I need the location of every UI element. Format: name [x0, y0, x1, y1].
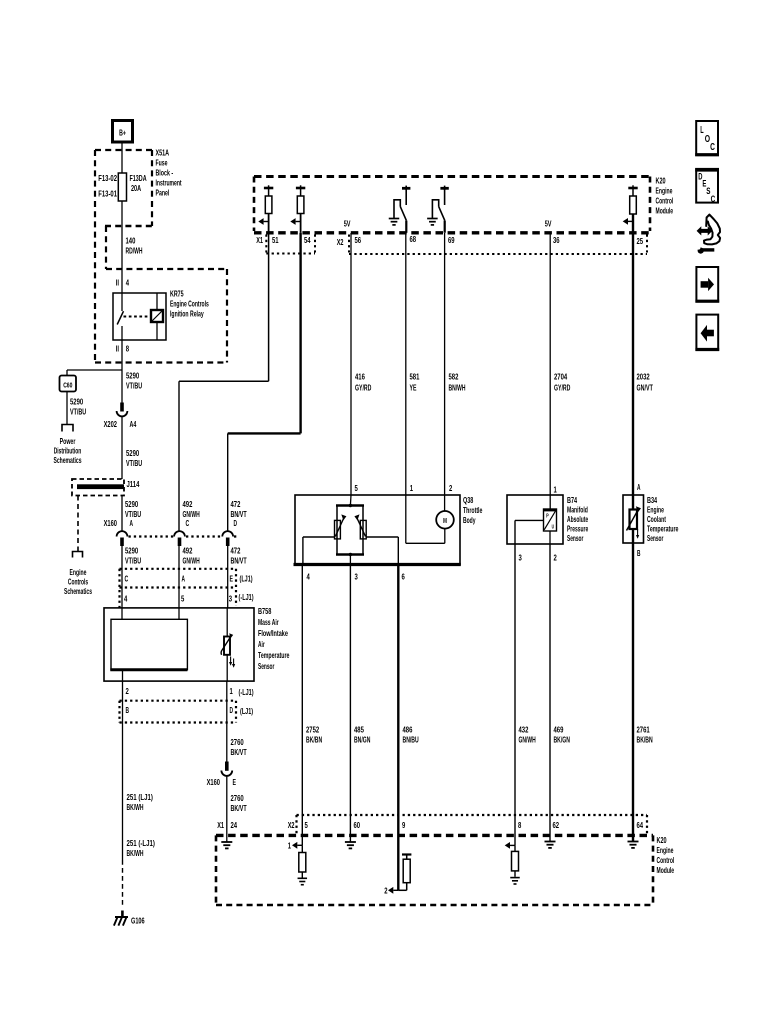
svg-text:BK/WH: BK/WH	[127, 802, 144, 812]
svg-text:5290: 5290	[126, 371, 139, 381]
svg-text:F13DA: F13DA	[130, 173, 147, 183]
svg-text:54: 54	[304, 235, 311, 245]
svg-text:5290: 5290	[125, 546, 138, 556]
svg-text:B: B	[126, 705, 130, 715]
svg-text:YE: YE	[410, 383, 417, 393]
svg-text:5V: 5V	[344, 219, 351, 229]
svg-text:(LJ1): (LJ1)	[240, 574, 253, 584]
svg-text:(-LJ1): (-LJ1)	[239, 592, 254, 602]
svg-text:C: C	[186, 518, 190, 528]
svg-text:Manifold: Manifold	[567, 505, 588, 515]
svg-text:E: E	[230, 574, 234, 584]
svg-text:251 (-LJ1): 251 (-LJ1)	[127, 838, 156, 848]
svg-text:BK/BN: BK/BN	[306, 735, 322, 745]
svg-text:VT/BU: VT/BU	[126, 458, 142, 468]
svg-text:Ignition Relay: Ignition Relay	[170, 309, 204, 319]
svg-text:36: 36	[553, 235, 560, 245]
svg-text:Body: Body	[463, 515, 476, 525]
svg-text:A: A	[637, 482, 641, 492]
svg-text:56: 56	[355, 235, 362, 245]
svg-text:A4: A4	[130, 419, 137, 429]
svg-text:Temperature: Temperature	[647, 524, 679, 534]
svg-text:5: 5	[181, 594, 184, 604]
svg-text:60: 60	[354, 820, 361, 830]
svg-text:M: M	[443, 516, 447, 525]
svg-text:X1: X1	[256, 235, 263, 245]
svg-text:5V: 5V	[545, 219, 552, 229]
svg-text:5290: 5290	[125, 499, 138, 509]
svg-text:64: 64	[637, 820, 644, 830]
svg-text:Controls: Controls	[68, 577, 88, 587]
svg-text:582: 582	[449, 372, 459, 382]
svg-text:472: 472	[231, 546, 241, 556]
svg-text:G106: G106	[131, 916, 145, 926]
svg-text:1: 1	[230, 686, 233, 696]
svg-text:2752: 2752	[306, 725, 319, 735]
svg-text:GN/WH: GN/WH	[519, 735, 536, 745]
svg-text:69: 69	[448, 235, 455, 245]
svg-text:Panel: Panel	[156, 188, 170, 198]
svg-text:Engine: Engine	[647, 505, 664, 515]
svg-text:Engine: Engine	[70, 567, 87, 577]
svg-text:Sensor: Sensor	[567, 533, 584, 543]
svg-text:BN/VT: BN/VT	[231, 556, 248, 566]
svg-text:3: 3	[519, 553, 522, 563]
svg-text:GY/RD: GY/RD	[355, 383, 371, 393]
svg-text:4: 4	[124, 594, 127, 604]
svg-text:Power: Power	[60, 436, 76, 446]
svg-text:Engine: Engine	[657, 845, 674, 855]
svg-text:2032: 2032	[637, 372, 650, 382]
svg-text:20A: 20A	[131, 183, 141, 193]
svg-text:Block -: Block -	[156, 168, 174, 178]
svg-text:X2: X2	[337, 237, 344, 247]
svg-text:X160: X160	[207, 777, 221, 787]
svg-text:Control: Control	[656, 196, 674, 206]
svg-text:486: 486	[403, 725, 413, 735]
svg-text:Pressure: Pressure	[567, 524, 588, 534]
svg-text:BN/WH: BN/WH	[449, 383, 466, 393]
svg-text:II: II	[116, 278, 119, 288]
svg-text:469: 469	[554, 725, 564, 735]
svg-text:2: 2	[384, 886, 387, 896]
svg-text:251 (LJ1): 251 (LJ1)	[127, 792, 154, 802]
svg-text:5290: 5290	[126, 448, 139, 458]
svg-text:GY/RD: GY/RD	[554, 383, 570, 393]
svg-text:VT/BU: VT/BU	[70, 407, 86, 417]
svg-text:BK/GN: BK/GN	[554, 735, 570, 745]
svg-text:1: 1	[410, 483, 413, 493]
svg-text:2: 2	[554, 553, 557, 563]
svg-text:F13-01: F13-01	[98, 189, 117, 199]
svg-text:RD/WH: RD/WH	[126, 246, 143, 256]
svg-text:X160: X160	[104, 518, 118, 528]
svg-text:Q38: Q38	[463, 495, 473, 505]
svg-text:X51A: X51A	[156, 148, 170, 158]
svg-text:492: 492	[183, 546, 193, 556]
svg-text:Temperature: Temperature	[258, 650, 290, 660]
svg-text:24: 24	[231, 820, 238, 830]
svg-text:51: 51	[272, 235, 279, 245]
svg-text:L: L	[700, 125, 703, 136]
svg-text:BN/GN: BN/GN	[354, 735, 370, 745]
svg-text:B+: B+	[119, 128, 126, 138]
svg-text:6: 6	[402, 572, 405, 582]
svg-text:C: C	[710, 142, 715, 153]
svg-text:485: 485	[354, 725, 364, 735]
svg-text:Sensor: Sensor	[647, 533, 664, 543]
svg-text:E: E	[233, 777, 237, 787]
svg-text:140: 140	[126, 236, 136, 246]
svg-text:BK/BN: BK/BN	[637, 735, 653, 745]
svg-text:D: D	[230, 705, 234, 715]
svg-text:VT/BU: VT/BU	[125, 556, 141, 566]
svg-text:B: B	[637, 548, 641, 558]
svg-text:416: 416	[355, 372, 365, 382]
svg-text:68: 68	[410, 234, 417, 244]
svg-text:B758: B758	[258, 606, 272, 616]
svg-text:C: C	[711, 194, 716, 205]
svg-text:B34: B34	[647, 495, 657, 505]
svg-text:581: 581	[410, 372, 420, 382]
svg-text:3: 3	[355, 572, 358, 582]
svg-text:62: 62	[553, 820, 560, 830]
svg-text:Throttle: Throttle	[463, 505, 483, 515]
svg-text:5290: 5290	[70, 397, 83, 407]
svg-text:Control: Control	[657, 855, 675, 865]
svg-text:4: 4	[126, 278, 129, 288]
svg-text:Instrument: Instrument	[156, 178, 182, 188]
svg-text:1: 1	[554, 485, 557, 495]
svg-text:J114: J114	[127, 479, 140, 489]
svg-text:U: U	[552, 525, 554, 531]
svg-text:(-LJ1): (-LJ1)	[239, 687, 254, 697]
svg-text:2: 2	[449, 483, 452, 493]
svg-text:Absolute: Absolute	[567, 514, 588, 524]
svg-text:432: 432	[519, 725, 529, 735]
svg-text:K20: K20	[657, 835, 667, 845]
svg-text:1: 1	[288, 841, 291, 851]
svg-text:F13-02: F13-02	[98, 173, 117, 183]
svg-text:GN/VT: GN/VT	[637, 383, 654, 393]
svg-text:P: P	[546, 514, 548, 520]
svg-text:D: D	[234, 518, 238, 528]
svg-text:Coolant: Coolant	[647, 514, 666, 524]
svg-text:Schematics: Schematics	[53, 455, 81, 465]
svg-text:BK/VT: BK/VT	[231, 747, 248, 757]
svg-text:C60: C60	[63, 381, 72, 390]
svg-text:X1: X1	[217, 820, 224, 830]
svg-text:Sensor: Sensor	[258, 661, 275, 671]
svg-text:492: 492	[183, 499, 193, 509]
svg-text:8: 8	[518, 820, 521, 830]
svg-text:II: II	[116, 344, 119, 354]
svg-text:X2: X2	[288, 820, 295, 830]
svg-text:A: A	[130, 518, 134, 528]
svg-text:Schematics: Schematics	[64, 586, 92, 596]
svg-text:Distribution: Distribution	[54, 446, 82, 456]
svg-text:KR75: KR75	[170, 289, 184, 299]
svg-text:472: 472	[231, 499, 241, 509]
svg-text:3: 3	[229, 594, 232, 604]
svg-text:A: A	[182, 574, 186, 584]
svg-text:B74: B74	[567, 495, 577, 505]
svg-text:2704: 2704	[554, 372, 567, 382]
svg-text:GN/WH: GN/WH	[183, 556, 200, 566]
svg-text:BN/BU: BN/BU	[403, 735, 419, 745]
svg-text:2760: 2760	[231, 737, 244, 747]
svg-text:BK/VT: BK/VT	[231, 803, 248, 813]
svg-text:Fuse: Fuse	[156, 158, 168, 168]
svg-text:VT/BU: VT/BU	[126, 381, 142, 391]
svg-text:Flow/Intake: Flow/Intake	[258, 628, 288, 638]
svg-text:Air: Air	[258, 639, 265, 649]
svg-text:Module: Module	[657, 865, 675, 875]
svg-text:2761: 2761	[637, 725, 650, 735]
svg-text:K20: K20	[656, 176, 666, 186]
svg-text:5: 5	[305, 820, 308, 830]
svg-text:VT/BU: VT/BU	[125, 509, 141, 519]
svg-text:2: 2	[126, 686, 129, 696]
svg-text:Engine Controls: Engine Controls	[170, 299, 209, 309]
svg-text:25: 25	[637, 236, 644, 246]
svg-text:Mass Air: Mass Air	[258, 617, 279, 627]
svg-text:X202: X202	[104, 419, 118, 429]
svg-text:2760: 2760	[231, 793, 244, 803]
svg-text:BK/WH: BK/WH	[127, 848, 144, 858]
svg-text:9: 9	[402, 820, 405, 830]
svg-text:Engine: Engine	[656, 186, 673, 196]
svg-text:(LJ1): (LJ1)	[240, 706, 253, 716]
svg-text:4: 4	[307, 572, 310, 582]
svg-text:C: C	[125, 574, 129, 584]
svg-text:5: 5	[355, 483, 358, 493]
svg-text:Module: Module	[656, 206, 674, 216]
svg-text:8: 8	[126, 344, 129, 354]
